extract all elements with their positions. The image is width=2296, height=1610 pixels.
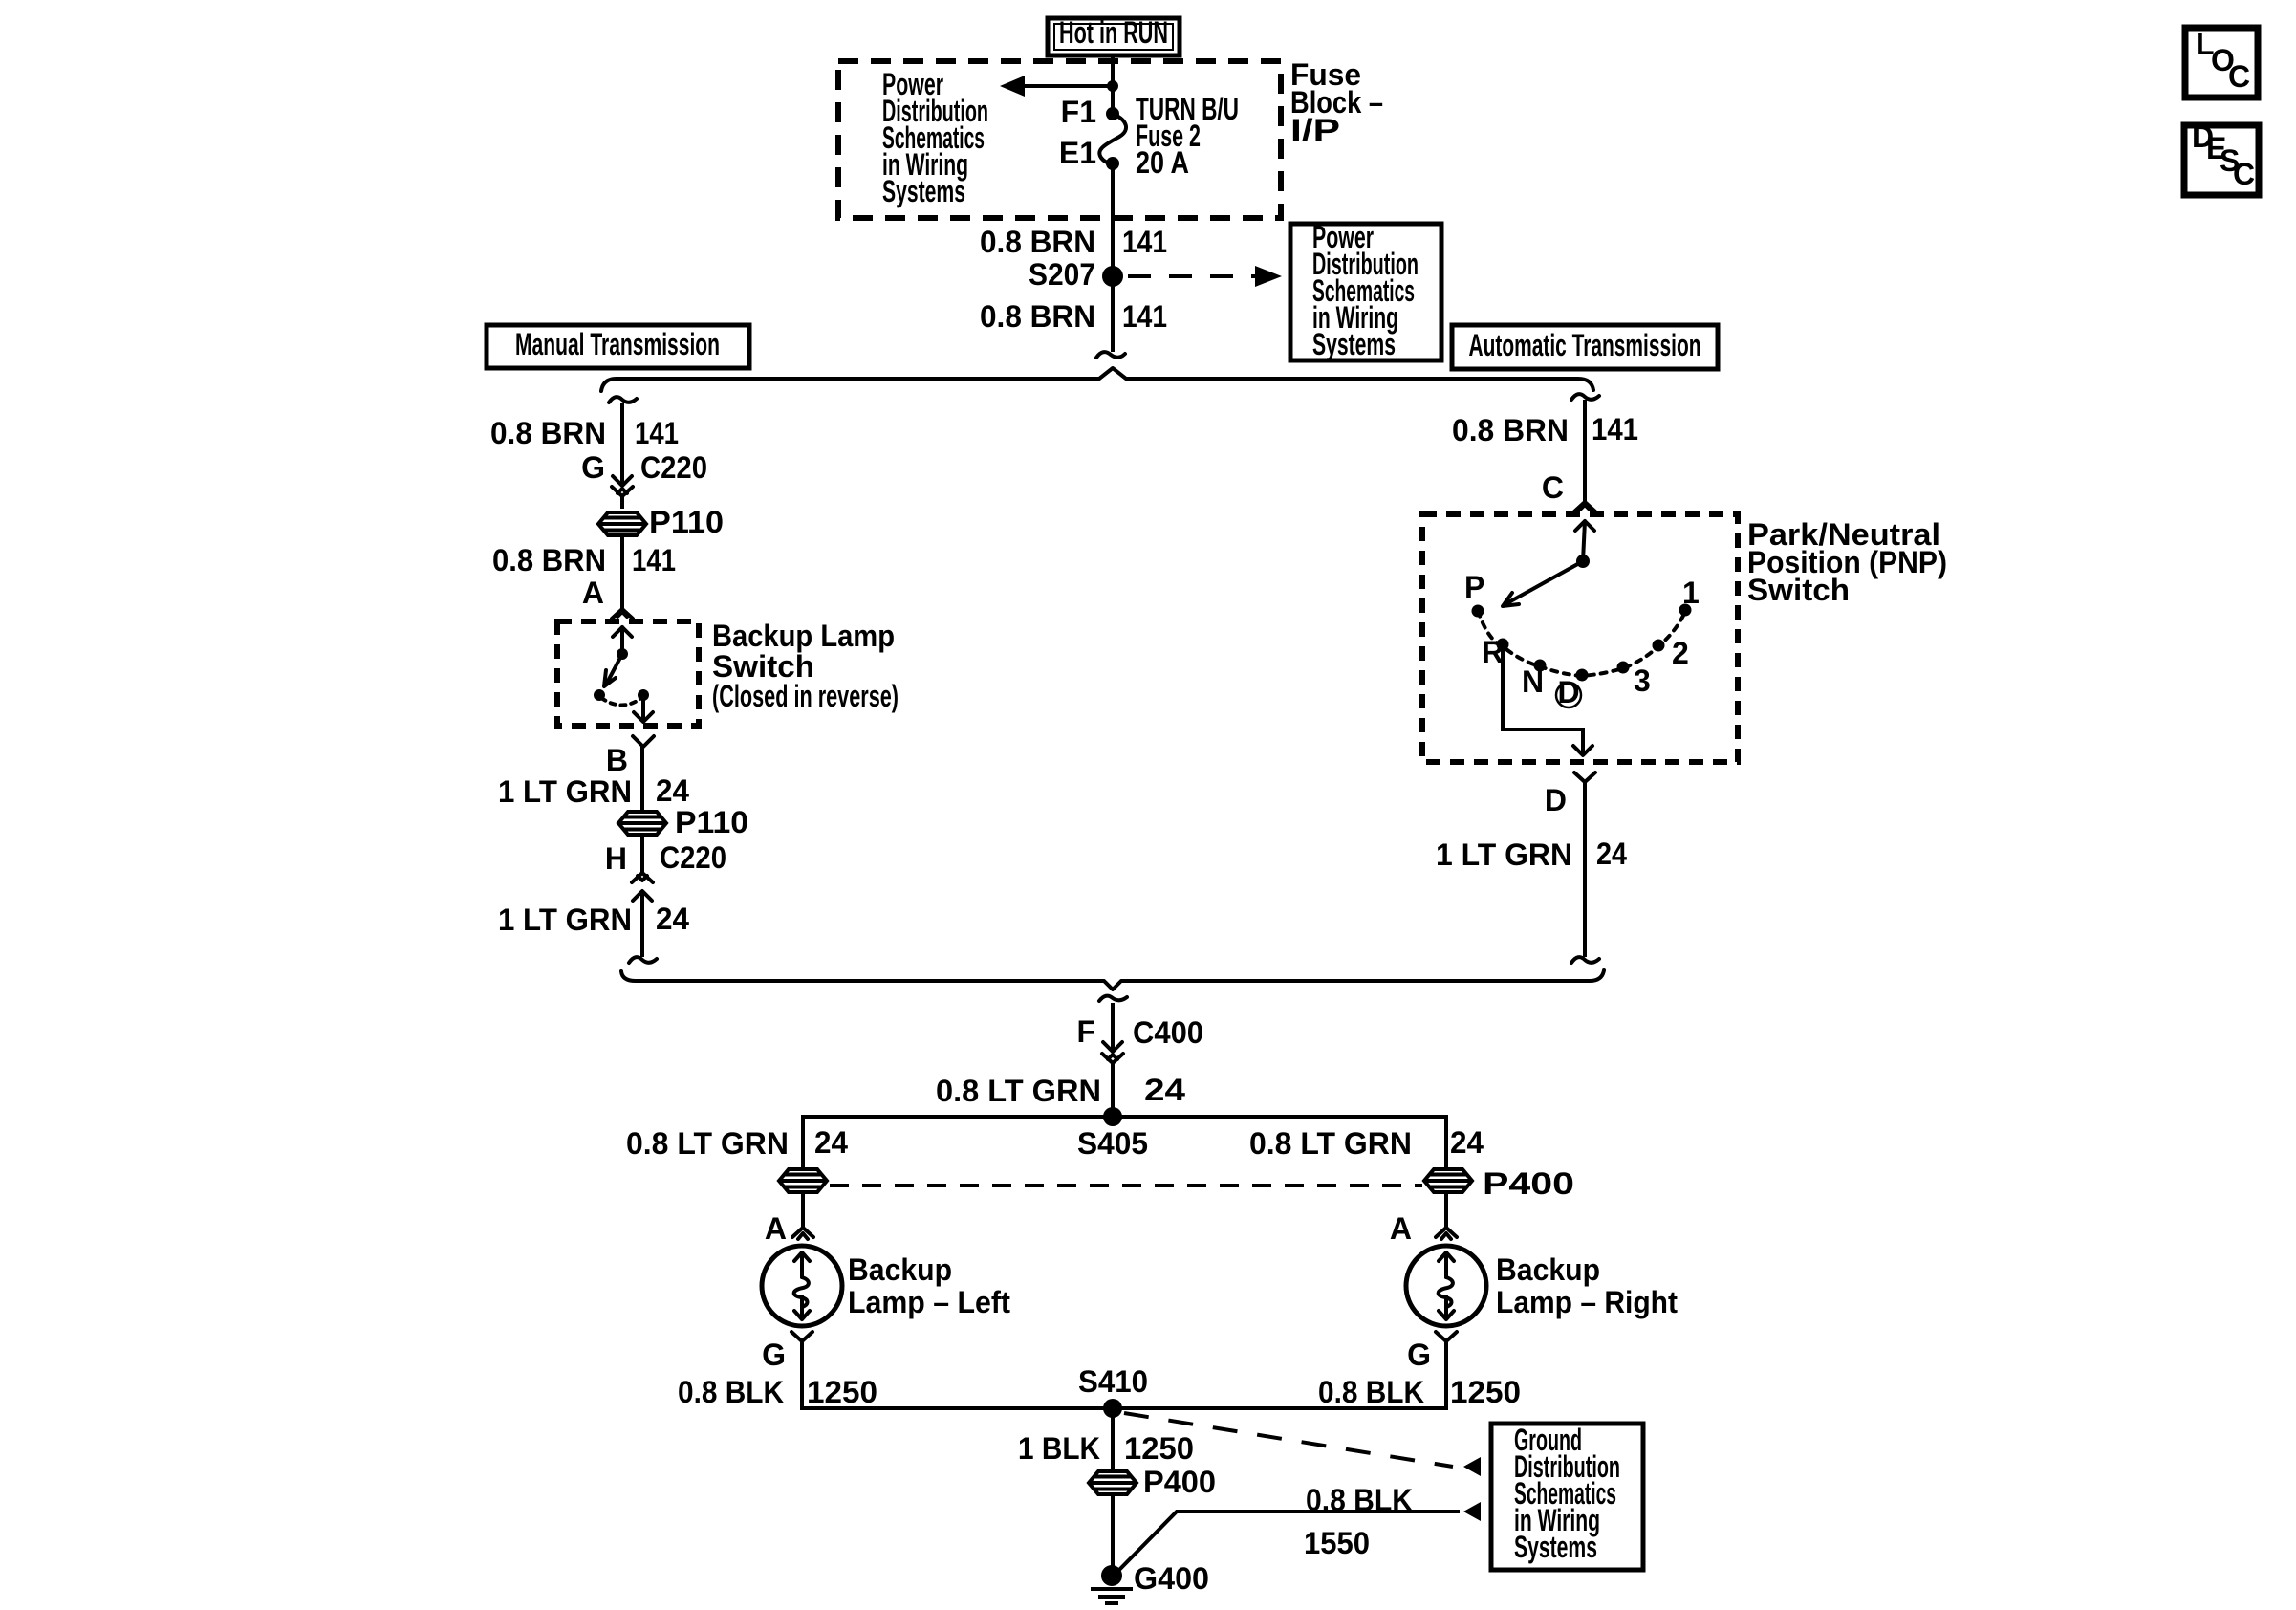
svg-text:D: D bbox=[1557, 675, 1579, 709]
svg-text:C: C bbox=[1542, 470, 1564, 505]
svg-text:D: D bbox=[1545, 783, 1567, 817]
svg-text:Hot in RUN: Hot in RUN bbox=[1059, 15, 1168, 50]
svg-text:24: 24 bbox=[656, 773, 689, 808]
svg-text:141: 141 bbox=[635, 416, 679, 450]
svg-text:P110: P110 bbox=[649, 505, 724, 539]
svg-text:24: 24 bbox=[1596, 837, 1627, 871]
svg-text:141: 141 bbox=[632, 543, 676, 577]
svg-text:0.8 LT GRN: 0.8 LT GRN bbox=[626, 1126, 789, 1161]
svg-text:Backup Lamp: Backup Lamp bbox=[712, 619, 895, 653]
svg-text:S207: S207 bbox=[1029, 257, 1095, 292]
svg-text:Lamp – Right: Lamp – Right bbox=[1496, 1285, 1678, 1319]
svg-text:I/P: I/P bbox=[1290, 113, 1340, 147]
svg-text:Switch: Switch bbox=[1747, 573, 1850, 607]
svg-text:H: H bbox=[605, 841, 627, 876]
svg-text:Manual Transmission: Manual Transmission bbox=[515, 327, 720, 361]
svg-text:1 LT GRN: 1 LT GRN bbox=[498, 774, 632, 809]
svg-text:1: 1 bbox=[1682, 576, 1700, 610]
svg-text:P400: P400 bbox=[1143, 1465, 1216, 1499]
svg-text:C: C bbox=[2228, 59, 2250, 94]
svg-text:C400: C400 bbox=[1133, 1015, 1203, 1050]
svg-text:G: G bbox=[762, 1338, 786, 1372]
svg-text:0.8 BRN: 0.8 BRN bbox=[492, 543, 606, 577]
svg-text:Systems: Systems bbox=[882, 174, 965, 208]
svg-text:A: A bbox=[765, 1211, 787, 1246]
svg-text:0.8 BRN: 0.8 BRN bbox=[980, 299, 1095, 334]
svg-text:0.8 BRN: 0.8 BRN bbox=[980, 225, 1095, 259]
svg-text:Backup: Backup bbox=[848, 1252, 952, 1287]
svg-text:141: 141 bbox=[1592, 412, 1638, 446]
svg-text:P110: P110 bbox=[675, 805, 748, 839]
svg-text:1 BLK: 1 BLK bbox=[1018, 1431, 1100, 1466]
svg-text:0.8 BLK: 0.8 BLK bbox=[1306, 1483, 1413, 1517]
svg-text:C: C bbox=[2233, 157, 2255, 191]
svg-text:2: 2 bbox=[1672, 636, 1689, 670]
svg-text:0.8 BLK: 0.8 BLK bbox=[1318, 1375, 1424, 1409]
svg-text:Systems: Systems bbox=[1312, 327, 1396, 361]
svg-text:1250: 1250 bbox=[1124, 1431, 1194, 1466]
svg-text:Backup: Backup bbox=[1496, 1252, 1600, 1287]
svg-text:N: N bbox=[1522, 664, 1544, 699]
svg-text:1550: 1550 bbox=[1304, 1526, 1370, 1560]
svg-text:G: G bbox=[1407, 1338, 1431, 1372]
svg-text:Systems: Systems bbox=[1514, 1530, 1597, 1564]
svg-text:P400: P400 bbox=[1483, 1166, 1574, 1201]
svg-text:S410: S410 bbox=[1078, 1364, 1148, 1399]
svg-text:0.8 LT GRN: 0.8 LT GRN bbox=[936, 1074, 1101, 1108]
svg-text:0.8 BRN: 0.8 BRN bbox=[490, 416, 606, 450]
svg-text:B: B bbox=[606, 743, 628, 777]
svg-text:(Closed in reverse): (Closed in reverse) bbox=[712, 679, 899, 713]
svg-text:141: 141 bbox=[1122, 225, 1167, 259]
svg-text:Automatic Transmission: Automatic Transmission bbox=[1469, 328, 1701, 362]
svg-text:A: A bbox=[582, 576, 604, 610]
svg-text:1 LT GRN: 1 LT GRN bbox=[1436, 838, 1572, 872]
svg-text:1 LT GRN: 1 LT GRN bbox=[498, 903, 632, 937]
svg-text:E1: E1 bbox=[1059, 136, 1096, 170]
svg-text:141: 141 bbox=[1122, 299, 1167, 334]
svg-text:20 A: 20 A bbox=[1136, 145, 1189, 180]
svg-text:Lamp – Left: Lamp – Left bbox=[848, 1285, 1010, 1319]
svg-text:G: G bbox=[581, 450, 605, 485]
svg-text:0.8 BLK: 0.8 BLK bbox=[678, 1375, 784, 1409]
svg-text:G400: G400 bbox=[1134, 1561, 1209, 1596]
svg-text:C220: C220 bbox=[660, 840, 726, 875]
svg-text:R: R bbox=[1482, 635, 1504, 669]
svg-text:24: 24 bbox=[1144, 1073, 1185, 1107]
svg-text:1250: 1250 bbox=[1450, 1375, 1521, 1409]
svg-text:S405: S405 bbox=[1077, 1126, 1148, 1161]
svg-text:0.8 BRN: 0.8 BRN bbox=[1452, 413, 1569, 447]
svg-text:C220: C220 bbox=[640, 450, 707, 485]
svg-text:1250: 1250 bbox=[807, 1375, 877, 1409]
svg-text:F: F bbox=[1076, 1014, 1095, 1049]
svg-text:3: 3 bbox=[1634, 664, 1651, 698]
svg-text:24: 24 bbox=[814, 1125, 848, 1160]
svg-text:24: 24 bbox=[656, 902, 689, 936]
svg-text:0.8 LT GRN: 0.8 LT GRN bbox=[1249, 1126, 1412, 1161]
svg-text:24: 24 bbox=[1450, 1125, 1484, 1160]
svg-text:A: A bbox=[1390, 1211, 1412, 1246]
svg-text:P: P bbox=[1464, 570, 1484, 604]
svg-text:F1: F1 bbox=[1061, 95, 1096, 129]
